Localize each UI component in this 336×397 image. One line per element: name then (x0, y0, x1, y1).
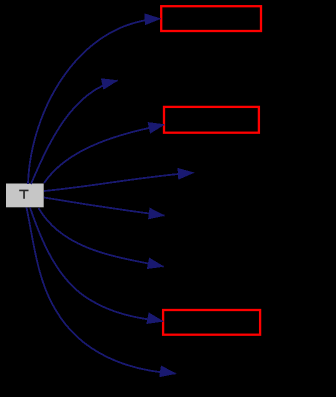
edge T->node2 (31, 79, 118, 184)
edge T->node8 (27, 208, 176, 377)
edge T->node6 (39, 208, 164, 269)
node box3 (red border) (163, 310, 260, 335)
node box2 (red border) (164, 107, 259, 133)
node box1 (red border) (161, 6, 261, 31)
edge T->node7 (30, 208, 163, 324)
edge T->node1 (28, 14, 161, 184)
edge T->node4 (44, 168, 194, 191)
edge T->node5 (44, 198, 165, 220)
node T (grey box) (6, 184, 44, 208)
edge T->node3 (44, 122, 164, 183)
